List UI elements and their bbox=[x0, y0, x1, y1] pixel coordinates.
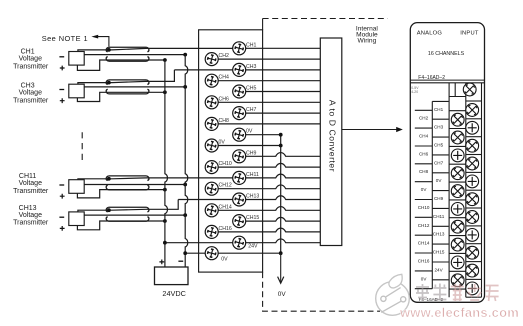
svg-text:www.elecfans.com: www.elecfans.com bbox=[399, 305, 519, 320]
wire terminal CH1 to ADC bbox=[239, 47, 320, 49]
label 0V arrow bbox=[278, 291, 287, 298]
watermark chinese text bbox=[416, 284, 499, 302]
svg-text:CH15: CH15 bbox=[433, 250, 445, 255]
svg-text:CH5: CH5 bbox=[246, 86, 256, 92]
bus +24V vertical bbox=[165, 60, 168, 267]
svg-text:Voltage: Voltage bbox=[19, 56, 42, 63]
transmitter CH3 box bbox=[69, 84, 84, 98]
transmitter CH1 box bbox=[69, 52, 84, 66]
svg-text:CH11: CH11 bbox=[433, 214, 445, 219]
svg-text:CH16: CH16 bbox=[219, 226, 232, 232]
wire CH3 minus to 0V bus bbox=[84, 86, 185, 88]
wire 24V terminal to +bus bbox=[165, 242, 239, 244]
svg-text:CH6: CH6 bbox=[219, 96, 229, 102]
wire terminal 0V lower to 0V collector bbox=[212, 145, 281, 147]
transmitter CH3 label bbox=[13, 83, 64, 105]
transmitter CH11 label bbox=[13, 173, 64, 198]
shield cable CH1 bbox=[106, 47, 149, 61]
module top wide screw bbox=[463, 83, 476, 96]
svg-text:CH14: CH14 bbox=[219, 204, 232, 210]
node 24V wire on +bus bbox=[163, 241, 167, 245]
module screw left 5 bbox=[451, 185, 464, 198]
svg-text:CH14: CH14 bbox=[418, 241, 430, 246]
node CH1 plus on 24V bus bbox=[163, 58, 167, 62]
node shield CH11 bbox=[107, 177, 111, 181]
watermark logo circle bbox=[376, 274, 410, 315]
terminal screw CH3 (row 3) bbox=[233, 63, 257, 76]
transmitter CH13 box bbox=[69, 212, 84, 226]
wire CH3 plus to 24V bus bbox=[77, 92, 164, 101]
svg-text:0V: 0V bbox=[246, 129, 253, 135]
terminal screw CH10 (row 12) bbox=[205, 161, 232, 174]
svg-text:0V: 0V bbox=[219, 140, 226, 146]
module screw right 3 bbox=[466, 139, 479, 152]
terminal screw 24V (row 19) bbox=[233, 236, 258, 249]
svg-text:0V: 0V bbox=[436, 178, 443, 183]
svg-text:See NOTE 1: See NOTE 1 bbox=[42, 34, 88, 43]
svg-text:0V: 0V bbox=[421, 187, 428, 192]
svg-text:0V: 0V bbox=[421, 276, 428, 281]
svg-text:Voltage: Voltage bbox=[19, 180, 42, 187]
note callout "See NOTE 1" bbox=[42, 34, 88, 43]
svg-text:24V: 24V bbox=[435, 267, 444, 272]
power supply 24VDC bbox=[155, 260, 189, 299]
svg-text:Transmitter: Transmitter bbox=[13, 63, 49, 70]
arrow 0V reference down bbox=[278, 253, 284, 283]
module screw right 9 bbox=[466, 246, 479, 259]
terminal screw CH8 (row 8) bbox=[205, 117, 229, 130]
shield cable CH13 bbox=[106, 207, 149, 221]
wire terminal CH4 to ADC bbox=[212, 80, 321, 82]
svg-text:CH11: CH11 bbox=[246, 172, 259, 178]
module screw left 6 bbox=[451, 203, 464, 216]
svg-text:CH9: CH9 bbox=[434, 196, 444, 201]
module screw left 3 bbox=[451, 149, 464, 162]
node CH13 plus on 24V bus bbox=[163, 219, 167, 223]
svg-text:0V: 0V bbox=[278, 291, 287, 298]
wire terminal CH6 to ADC bbox=[212, 101, 321, 103]
wire CH1 minus to 0V bus bbox=[84, 54, 185, 56]
wire terminal 0V upper to 0V collector bbox=[239, 134, 281, 136]
svg-text:Wiring: Wiring bbox=[358, 37, 377, 44]
terminal screw 0V (row 9) bbox=[233, 128, 253, 141]
svg-text:CH8: CH8 bbox=[219, 118, 229, 124]
terminal screw CH5 (row 5) bbox=[233, 85, 257, 98]
module screw left 4 bbox=[451, 167, 464, 180]
module screw left 8 bbox=[451, 238, 464, 251]
node CH11 plus on 24V bus bbox=[163, 188, 167, 192]
wire terminal CH7 to ADC bbox=[239, 112, 320, 114]
wire terminal CH5 to ADC bbox=[239, 91, 320, 93]
module screw right 2 bbox=[466, 121, 479, 134]
module screw right 4 bbox=[466, 157, 479, 170]
shield cable CH11 bbox=[106, 176, 149, 190]
svg-text:CH12: CH12 bbox=[219, 183, 232, 189]
wire terminal CH2 to ADC bbox=[212, 58, 321, 60]
shield cable CH3 bbox=[106, 80, 149, 94]
svg-text:24V: 24V bbox=[248, 244, 258, 250]
svg-text:CH9: CH9 bbox=[246, 150, 256, 156]
node CH13 minus on 0V bus bbox=[183, 213, 187, 217]
label Internal Module Wiring bbox=[356, 26, 379, 45]
svg-text:CH3: CH3 bbox=[246, 64, 256, 70]
module bottom label F4-16AD-2 bbox=[419, 297, 444, 302]
node 0V collector bottom bbox=[279, 251, 283, 255]
svg-text:Transmitter: Transmitter bbox=[13, 97, 49, 104]
node CH11 minus on 0V bus bbox=[183, 183, 187, 187]
terminal screw CH1 (row 1) bbox=[233, 42, 257, 55]
module terminal grid bbox=[449, 83, 481, 297]
module screw left 7 bbox=[451, 220, 464, 233]
terminal screw CH6 (row 6) bbox=[205, 96, 229, 109]
svg-text:CH10: CH10 bbox=[418, 205, 430, 210]
wire terminal CH10 to ADC bbox=[212, 163, 321, 167]
module channel labels bbox=[418, 107, 445, 281]
svg-text:4-20: 4-20 bbox=[411, 90, 418, 94]
module screw right 1 bbox=[466, 104, 479, 117]
svg-text:CH12: CH12 bbox=[418, 223, 430, 228]
svg-text:INPUT: INPUT bbox=[460, 30, 479, 36]
terminal screw 0V (row 10) bbox=[205, 139, 225, 152]
module screw right 7 bbox=[466, 211, 479, 224]
wire terminal CH3 to ADC bbox=[239, 69, 320, 71]
module screw left 9 bbox=[451, 256, 464, 269]
module F4-16AD-2 outline bbox=[410, 23, 484, 303]
module screw right 5 bbox=[466, 175, 479, 188]
node 0V wire on -bus bbox=[183, 251, 187, 255]
module terminal label strip bbox=[415, 101, 449, 288]
svg-text:Transmitter: Transmitter bbox=[13, 188, 49, 195]
module screw right 6 bbox=[466, 193, 479, 206]
wire terminal CH12 to ADC bbox=[212, 185, 321, 189]
svg-text:CH2: CH2 bbox=[219, 53, 229, 59]
node shield CH3 bbox=[107, 81, 111, 85]
wire terminal 24V to ADC bbox=[239, 239, 320, 243]
svg-text:Voltage: Voltage bbox=[19, 89, 42, 96]
module screw left 1 bbox=[451, 113, 464, 126]
wire terminal CH15 to ADC bbox=[239, 217, 320, 221]
svg-text:Transmitter: Transmitter bbox=[13, 220, 49, 227]
arrow to shield of CH1 bbox=[91, 35, 109, 47]
ellipsis continuation dashed line bbox=[81, 132, 83, 163]
svg-text:CH13: CH13 bbox=[246, 194, 259, 200]
svg-text:CH13: CH13 bbox=[433, 232, 445, 237]
wire CH13 plus to 24V bus bbox=[77, 221, 164, 230]
terminal block outline bbox=[199, 30, 263, 272]
svg-text:CH3: CH3 bbox=[434, 125, 444, 130]
svg-text:CH5: CH5 bbox=[434, 142, 444, 147]
wire terminal CH16 to ADC bbox=[212, 228, 321, 232]
wire terminal CH9 to ADC bbox=[239, 153, 320, 157]
bus 0V vertical bbox=[185, 55, 188, 267]
wire CH11 plus to 24V bus bbox=[77, 190, 164, 198]
watermark url text bbox=[399, 305, 519, 320]
module screw right 8 bbox=[466, 229, 479, 242]
wire CH1 plus to 24V bus bbox=[77, 60, 164, 70]
svg-text:ANALOG: ANALOG bbox=[417, 30, 443, 36]
A to D converter U1 bbox=[320, 38, 342, 246]
dashed box internal module wiring bbox=[263, 19, 388, 312]
wire terminal CH8 to ADC bbox=[212, 123, 321, 125]
wire terminal CH14 to ADC bbox=[212, 207, 321, 211]
svg-text:0V: 0V bbox=[221, 256, 228, 262]
svg-text:CH1: CH1 bbox=[434, 107, 444, 112]
terminal screw CH16 (row 18) bbox=[205, 225, 232, 238]
node shield CH13 bbox=[107, 208, 111, 212]
wire CH11 signal to terminal CH11 bbox=[78, 178, 239, 180]
svg-text:16 CHANNELS: 16 CHANNELS bbox=[428, 51, 465, 57]
svg-text:CH8: CH8 bbox=[419, 169, 429, 174]
terminal screw CH9 (row 11) bbox=[233, 150, 257, 163]
svg-text:CH4: CH4 bbox=[219, 75, 229, 81]
svg-text:CH1: CH1 bbox=[246, 42, 256, 48]
wire terminal 0V bottom to collector node bbox=[212, 252, 281, 254]
wire CH1 signal to terminal CH1 bbox=[78, 48, 239, 51]
svg-text:CH7: CH7 bbox=[246, 107, 256, 113]
svg-text:CH10: CH10 bbox=[219, 161, 232, 167]
module range tiny text bbox=[411, 86, 419, 94]
node CH1 minus on 0V bus bbox=[183, 53, 187, 57]
svg-text:24VDC: 24VDC bbox=[162, 289, 186, 298]
node 0V collector mid bbox=[279, 144, 283, 148]
wire CH13 minus to 0V bus bbox=[84, 214, 185, 216]
wire CH3 signal to terminal CH3 bbox=[78, 70, 239, 84]
terminal screw CH14 (row 16) bbox=[205, 204, 232, 217]
wire 0V terminal row to -bus bbox=[185, 252, 212, 254]
svg-text:Voltage: Voltage bbox=[19, 212, 42, 219]
bus 0V collector vertical bbox=[280, 135, 282, 254]
svg-text:CH6: CH6 bbox=[419, 151, 429, 156]
terminal screw CH4 (row 4) bbox=[205, 74, 229, 87]
svg-text:A to D Converter: A to D Converter bbox=[327, 100, 337, 172]
svg-text:CH2: CH2 bbox=[419, 116, 429, 121]
wire CH13 signal to terminal CH13 bbox=[78, 200, 239, 212]
wire terminal CH11 to ADC bbox=[239, 174, 320, 178]
svg-text:CH15: CH15 bbox=[246, 215, 259, 221]
node CH3 minus on 0V bus bbox=[183, 85, 187, 89]
module screw right 11 bbox=[466, 282, 479, 295]
terminal screw CH12 (row 14) bbox=[205, 182, 232, 195]
terminal screw CH7 (row 7) bbox=[233, 107, 257, 120]
wire terminal CH13 to ADC bbox=[239, 196, 320, 200]
transmitter CH11 box bbox=[69, 180, 84, 194]
module screw left 2 bbox=[451, 131, 464, 144]
node CH3 plus on 24V bus bbox=[163, 90, 167, 94]
module screw right 10 bbox=[466, 264, 479, 277]
svg-text:CH4: CH4 bbox=[419, 134, 429, 139]
terminal screw CH15 (row 17) bbox=[233, 215, 260, 228]
wire CH11 minus to 0V bus bbox=[84, 184, 185, 186]
transmitter CH1 label bbox=[13, 49, 64, 71]
node 0V collector top bbox=[279, 133, 283, 137]
svg-text:CH7: CH7 bbox=[434, 160, 444, 165]
module face separator bbox=[410, 80, 484, 83]
terminal screw CH11 (row 13) bbox=[233, 171, 259, 184]
terminal screw CH13 (row 15) bbox=[233, 193, 260, 206]
arrow ADC to module bbox=[342, 127, 403, 132]
transmitter CH13 label bbox=[13, 205, 64, 231]
terminal screw CH2 (row 2) bbox=[205, 53, 229, 66]
terminal screw 0V (row 20) bbox=[205, 247, 228, 263]
module screw left 10 bbox=[451, 274, 464, 287]
module face labels bbox=[417, 30, 479, 81]
svg-text:CH16: CH16 bbox=[418, 258, 430, 263]
node shield CH1 bbox=[107, 48, 111, 52]
